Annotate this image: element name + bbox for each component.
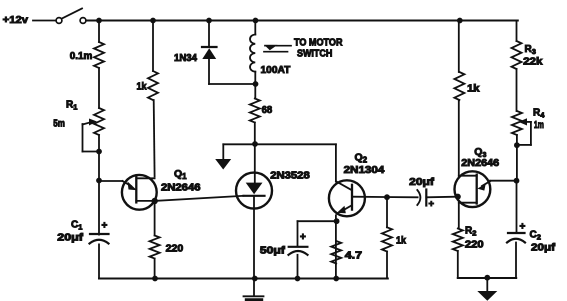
svg-text:20μf: 20μf [409,177,434,188]
svg-text:2N3528: 2N3528 [270,170,310,181]
svg-text:+12v: +12v [3,14,28,26]
svg-text:+: + [102,221,108,232]
svg-text:220: 220 [465,239,484,250]
svg-text:Q3: Q3 [474,146,486,159]
svg-text:Q2: Q2 [355,152,368,165]
svg-text:+: + [429,199,435,210]
svg-text:TO MOTOR: TO MOTOR [294,38,343,49]
svg-text:1m: 1m [534,120,544,131]
svg-text:220: 220 [166,243,184,254]
svg-text:R3: R3 [525,44,536,56]
svg-text:R2: R2 [465,226,476,238]
svg-text:4.7: 4.7 [345,250,363,261]
svg-text:+: + [520,222,526,233]
svg-text:C1: C1 [71,220,82,232]
svg-text:5m: 5m [53,119,65,130]
svg-text:R4: R4 [533,108,545,120]
svg-text:20μf: 20μf [531,242,556,253]
svg-text:2N2646: 2N2646 [161,183,201,194]
svg-text:1k: 1k [467,84,480,95]
svg-text:20μf: 20μf [57,233,83,244]
svg-text:100AT: 100AT [261,65,291,76]
svg-text:68: 68 [262,105,273,116]
svg-text:C2: C2 [530,230,541,242]
svg-text:22k: 22k [523,57,543,68]
svg-text:Q1: Q1 [174,168,187,181]
svg-text:50μf: 50μf [260,245,286,256]
svg-text:2N2646: 2N2646 [461,158,499,169]
svg-text:0.1m: 0.1m [70,51,93,62]
svg-text:R1: R1 [66,100,77,112]
svg-text:1k: 1k [137,82,147,93]
svg-text:SWITCH: SWITCH [297,49,332,60]
svg-text:2N1304: 2N1304 [344,165,385,176]
svg-text:+: + [300,232,306,243]
svg-text:1N34: 1N34 [174,53,197,64]
svg-text:1k: 1k [396,236,406,247]
